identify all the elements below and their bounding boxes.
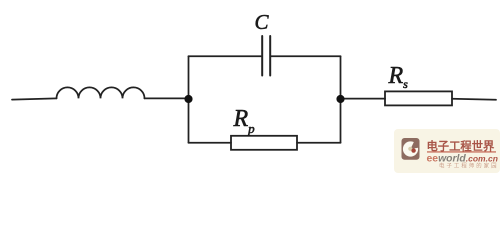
wire: left vertical branch — [188, 56, 190, 142]
svg-text:电子工程世界: 电子工程世界 — [427, 139, 495, 153]
wire: right node to Rs — [341, 98, 386, 100]
svg-text:C: C — [255, 10, 270, 34]
wire: inductor to left node — [145, 97, 189, 99]
logo red dot — [411, 148, 415, 152]
watermark logo eeworld — [402, 138, 420, 160]
watermark backdrop — [394, 129, 500, 173]
wire: right lead out of Rs — [452, 99, 496, 100]
node junction left — [184, 95, 192, 103]
resistor Rp body — [231, 136, 297, 150]
wire: top branch right segment from capacitor — [271, 55, 341, 57]
svg-text:Rp: Rp — [233, 106, 256, 136]
capacitor C plates — [262, 36, 270, 76]
logo red rule — [427, 151, 496, 153]
logo icon box — [402, 138, 420, 160]
logo notch wedge — [411, 139, 420, 149]
logo center pale dot — [408, 147, 412, 151]
wire: top branch left segment to capacitor — [189, 55, 262, 57]
svg-text:电子工程师的家园: 电子工程师的家园 — [439, 162, 499, 170]
wire: left lead into inductor — [12, 98, 57, 99]
resistor Rs body — [385, 91, 452, 105]
node junction right — [336, 95, 344, 103]
wire: right vertical branch — [340, 56, 342, 142]
svg-text:Rs: Rs — [388, 63, 409, 91]
wire: bottom branch left segment to Rp — [189, 142, 232, 144]
inductor L1 (4 loops) — [57, 87, 145, 98]
logo white C disc — [403, 141, 418, 156]
wire: bottom branch right segment from Rp — [297, 142, 341, 144]
